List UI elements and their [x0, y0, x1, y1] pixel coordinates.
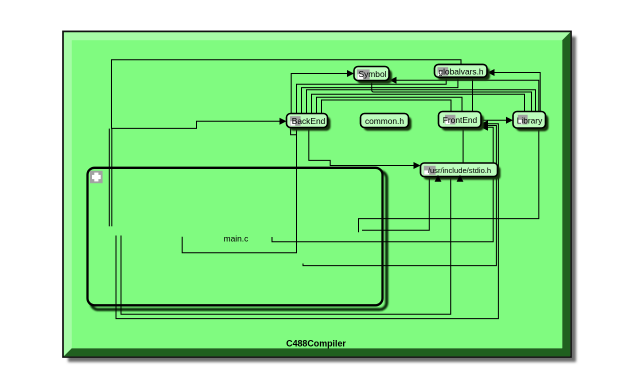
- svg-text:FrontEnd: FrontEnd: [443, 115, 478, 125]
- wire FrontEnd -> Library: [481, 119, 508, 121]
- svg-text:common.h: common.h: [365, 116, 404, 126]
- wire BackEnd -> FrontEnd (staircase 7): [322, 100, 452, 114]
- wire hanging pair left 2: [111, 129, 113, 227]
- wire hanging pair left: [108, 129, 110, 227]
- wire BackEnd -> Library (staircase 5): [312, 94, 525, 113]
- wire BackEnd -> Symbol (staircase 1): [291, 74, 348, 114]
- arrowhead into Symbol right: [390, 77, 397, 84]
- panel C488Compiler: border: [63, 31, 571, 357]
- node common.h: [361, 114, 412, 131]
- wire FrontEnd -> stdio.h (vertical): [462, 128, 464, 163]
- svg-text:C488Compiler: C488Compiler: [286, 339, 346, 349]
- composite node main.c (expanded box): [88, 168, 387, 310]
- svg-text:Symbol: Symbol: [359, 69, 387, 79]
- panel main fill: [72, 40, 562, 348]
- wire main.c -> FrontEnd (route 3, bottom bus): [116, 124, 498, 319]
- wire main.c -> Symbol (right loop under Library): [359, 80, 539, 232]
- arrowhead into Library: [506, 117, 513, 124]
- node FrontEnd: [439, 112, 485, 131]
- wire BackEnd bottom stub: [291, 128, 297, 135]
- wire main.c -> FrontEnd (route 2): [303, 126, 496, 266]
- node Symbol: [354, 67, 392, 84]
- arrowhead into BackEnd: [280, 118, 287, 125]
- svg-text:main.c: main.c: [224, 234, 249, 244]
- arrowhead into FrontEnd right 1: [481, 120, 488, 127]
- arrowhead into globalvars.h right: [488, 69, 495, 76]
- arrowhead into Symbol left: [347, 70, 354, 77]
- arrowhead into FrontEnd right 3: [481, 124, 488, 131]
- arrowhead into stdio.h bottom 2: [457, 175, 464, 182]
- wire BackEnd -> Library (staircase 4): [307, 90, 536, 114]
- wire globalvars.h -> FrontEnd (straight vertical): [472, 77, 474, 112]
- arrowhead into stdio.h bottom 1: [435, 175, 442, 182]
- node BackEnd: [287, 114, 331, 131]
- arrowhead into stdio.h left: [414, 162, 421, 169]
- panel drop shadow: [68, 37, 576, 363]
- wire globalvars.h -> BackEnd (big left loop with step): [112, 60, 462, 129]
- svg-text:globalvars.h: globalvars.h: [438, 66, 484, 76]
- wire BackEnd -> FrontEnd (staircase 6): [317, 97, 463, 113]
- arrowhead into FrontEnd right 2: [481, 122, 488, 129]
- svg-text:BackEnd: BackEnd: [292, 116, 326, 126]
- panel bevel dark bottom/right: [64, 32, 570, 356]
- svg-text:/usr/include/stdio.h: /usr/include/stdio.h: [428, 166, 491, 175]
- wire Symbol -> Library: [372, 81, 532, 113]
- node Library: [513, 112, 549, 132]
- wire BackEnd -> globalvars.h (staircase 2): [297, 77, 447, 113]
- node /usr/include/stdio.h: [421, 163, 501, 180]
- wire Library -> globalvars.h: [493, 73, 541, 121]
- wire stdio.h hanging: [362, 177, 429, 230]
- node globalvars.h: [435, 64, 491, 80]
- svg-text:Library: Library: [517, 115, 543, 125]
- expander + icon of main.c: [90, 171, 103, 183]
- wire main.c -> FrontEnd (route 1): [272, 127, 493, 242]
- wire BackEnd -> main.c (bracket): [182, 128, 296, 253]
- wire BackEnd -> stdio.h: [309, 128, 416, 166]
- wire main.c -> stdio.h (bottom bus): [121, 177, 451, 314]
- wire BackEnd -> globalvars.h (staircase 3): [302, 77, 458, 113]
